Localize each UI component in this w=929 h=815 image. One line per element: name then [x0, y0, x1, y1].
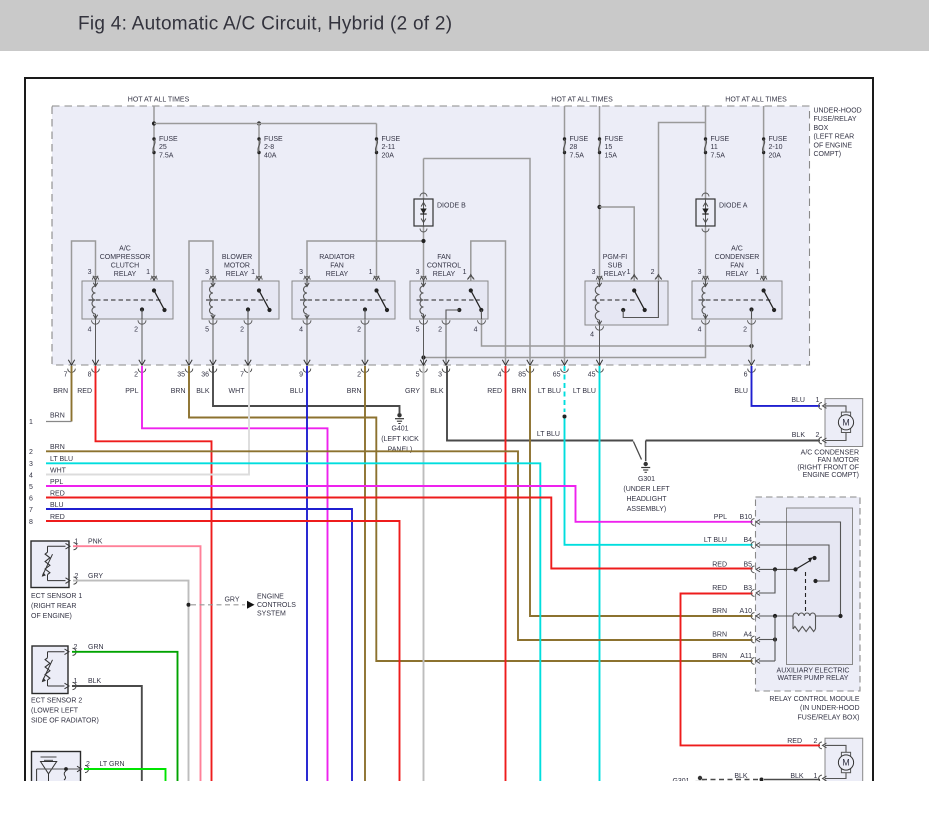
svg-text:7.5A: 7.5A: [159, 152, 174, 159]
svg-text:Fig 4: Automatic A/C Circuit,: Fig 4: Automatic A/C Circuit, Hybrid (2 …: [78, 14, 452, 35]
svg-text:M: M: [842, 758, 850, 768]
svg-text:5: 5: [416, 327, 420, 334]
svg-text:HEADLIGHT: HEADLIGHT: [626, 496, 667, 503]
svg-text:PPL: PPL: [714, 514, 727, 521]
svg-text:RED: RED: [787, 738, 802, 745]
svg-text:B3: B3: [743, 585, 752, 592]
svg-text:COMPRESSOR: COMPRESSOR: [100, 254, 151, 261]
svg-text:7: 7: [64, 372, 68, 379]
svg-text:7.5A: 7.5A: [711, 152, 726, 159]
svg-text:2: 2: [74, 644, 78, 651]
svg-text:7: 7: [240, 372, 244, 379]
svg-text:PNK: PNK: [88, 538, 103, 545]
svg-text:RELAY: RELAY: [726, 271, 749, 278]
svg-text:A/C: A/C: [731, 246, 743, 253]
svg-text:2: 2: [814, 738, 818, 745]
svg-text:PANEL): PANEL): [388, 447, 413, 454]
svg-text:ECT SENSOR 2: ECT SENSOR 2: [31, 698, 82, 705]
svg-text:SUB: SUB: [608, 263, 623, 270]
svg-text:COMPT): COMPT): [814, 151, 842, 158]
svg-text:1: 1: [75, 538, 79, 545]
svg-text:RELAY: RELAY: [433, 271, 456, 278]
svg-text:FUSE: FUSE: [570, 136, 589, 143]
svg-text:RED: RED: [50, 490, 65, 497]
svg-text:5: 5: [29, 484, 33, 491]
svg-text:FUSE: FUSE: [159, 136, 178, 143]
svg-text:BRN: BRN: [512, 388, 527, 395]
svg-text:4: 4: [698, 327, 702, 334]
svg-text:BOX: BOX: [814, 125, 829, 132]
svg-text:ECT SENSOR 1: ECT SENSOR 1: [31, 593, 82, 600]
svg-text:6: 6: [29, 495, 33, 502]
svg-text:B5: B5: [743, 561, 752, 568]
svg-text:LT BLU: LT BLU: [538, 388, 561, 395]
svg-text:FUSE: FUSE: [605, 136, 624, 143]
svg-text:G301: G301: [638, 476, 655, 483]
svg-text:3: 3: [438, 372, 442, 379]
svg-text:2-11: 2-11: [382, 144, 396, 151]
svg-text:G401: G401: [391, 426, 408, 433]
svg-text:3: 3: [698, 269, 702, 276]
svg-text:FUSE: FUSE: [711, 136, 730, 143]
svg-text:WHT: WHT: [229, 388, 246, 395]
svg-text:BLU: BLU: [734, 388, 748, 395]
svg-text:LT BLU: LT BLU: [50, 456, 73, 463]
svg-text:RELAY: RELAY: [226, 271, 249, 278]
svg-text:4: 4: [474, 327, 478, 334]
svg-text:LT BLU: LT BLU: [573, 388, 596, 395]
svg-text:FUSE: FUSE: [382, 136, 401, 143]
svg-text:A4: A4: [743, 632, 752, 639]
svg-text:CONDENSER: CONDENSER: [715, 254, 760, 261]
svg-text:2-8: 2-8: [264, 144, 274, 151]
svg-text:(LEFT REAR: (LEFT REAR: [814, 134, 855, 141]
svg-text:BLK: BLK: [88, 678, 102, 685]
svg-text:HOT AT ALL TIMES: HOT AT ALL TIMES: [725, 97, 787, 104]
svg-text:FUSE: FUSE: [264, 136, 283, 143]
svg-text:HOT AT ALL TIMES: HOT AT ALL TIMES: [128, 97, 190, 104]
svg-text:5: 5: [205, 327, 209, 334]
svg-text:GRY: GRY: [405, 388, 420, 395]
svg-text:45: 45: [588, 372, 596, 379]
svg-text:PPL: PPL: [125, 388, 138, 395]
svg-text:7: 7: [29, 507, 33, 514]
svg-text:3: 3: [416, 269, 420, 276]
svg-text:FAN: FAN: [730, 263, 744, 270]
svg-text:ENGINE COMPT): ENGINE COMPT): [803, 472, 859, 479]
svg-text:RELAY: RELAY: [604, 271, 627, 278]
svg-text:40A: 40A: [264, 152, 277, 159]
svg-text:(RIGHT FRONT OF: (RIGHT FRONT OF: [797, 465, 859, 472]
svg-text:WATER PUMP RELAY: WATER PUMP RELAY: [778, 675, 849, 682]
svg-text:28: 28: [570, 144, 578, 151]
svg-text:WHT: WHT: [50, 467, 67, 474]
svg-text:4: 4: [299, 327, 303, 334]
svg-text:B10: B10: [740, 514, 753, 521]
svg-text:2-10: 2-10: [769, 144, 783, 151]
svg-text:ASSEMBLY): ASSEMBLY): [627, 506, 667, 513]
svg-text:RELAY: RELAY: [114, 271, 137, 278]
svg-text:2: 2: [134, 327, 138, 334]
svg-text:HOT AT ALL TIMES: HOT AT ALL TIMES: [551, 97, 613, 104]
svg-text:RED: RED: [712, 585, 727, 592]
svg-text:8: 8: [88, 372, 92, 379]
svg-text:(RIGHT REAR: (RIGHT REAR: [31, 603, 76, 610]
svg-text:1: 1: [251, 269, 255, 276]
svg-text:A/C CONDENSER: A/C CONDENSER: [801, 450, 859, 457]
svg-text:A10: A10: [740, 608, 753, 615]
svg-text:RED: RED: [77, 388, 92, 395]
svg-text:8: 8: [29, 519, 33, 526]
svg-text:3: 3: [299, 269, 303, 276]
svg-text:BLK: BLK: [196, 388, 210, 395]
svg-text:25: 25: [159, 144, 167, 151]
svg-text:M: M: [842, 418, 850, 428]
svg-text:3: 3: [205, 269, 209, 276]
svg-text:9: 9: [299, 372, 303, 379]
svg-text:PGM-FI: PGM-FI: [603, 254, 628, 261]
svg-text:GRY: GRY: [88, 573, 103, 580]
svg-text:20A: 20A: [769, 152, 782, 159]
svg-text:3: 3: [88, 269, 92, 276]
svg-text:DIODE B: DIODE B: [437, 203, 466, 210]
svg-text:FUSE: FUSE: [769, 136, 788, 143]
svg-text:BLU: BLU: [290, 388, 304, 395]
svg-text:BLU: BLU: [791, 397, 805, 404]
svg-text:OF ENGINE: OF ENGINE: [814, 142, 853, 149]
svg-text:36: 36: [201, 372, 209, 379]
svg-text:GRY: GRY: [224, 597, 239, 604]
svg-text:CONTROLS: CONTROLS: [257, 602, 296, 609]
svg-text:CONTROL: CONTROL: [427, 263, 461, 270]
svg-text:15: 15: [605, 144, 613, 151]
svg-text:FAN: FAN: [437, 254, 451, 261]
svg-text:BLK: BLK: [792, 432, 806, 439]
svg-text:(LOWER LEFT: (LOWER LEFT: [31, 708, 79, 715]
svg-text:4: 4: [590, 332, 594, 339]
svg-text:RELAY: RELAY: [326, 271, 349, 278]
svg-text:(IN UNDER-HOOD: (IN UNDER-HOOD: [800, 705, 860, 712]
svg-text:5: 5: [416, 372, 420, 379]
svg-text:BRN: BRN: [50, 444, 65, 451]
svg-text:RED: RED: [712, 561, 727, 568]
svg-text:FUSE/RELAY BOX): FUSE/RELAY BOX): [798, 715, 860, 722]
svg-text:BRN: BRN: [712, 653, 727, 660]
svg-text:A11: A11: [740, 653, 752, 660]
svg-text:A/C: A/C: [119, 246, 131, 253]
svg-text:BRN: BRN: [712, 632, 727, 639]
svg-text:7.5A: 7.5A: [570, 152, 585, 159]
svg-text:65: 65: [553, 372, 561, 379]
svg-text:BLK: BLK: [430, 388, 444, 395]
svg-text:PPL: PPL: [50, 479, 63, 486]
svg-text:2: 2: [651, 269, 655, 276]
svg-text:RED: RED: [487, 388, 502, 395]
svg-text:FAN MOTOR: FAN MOTOR: [818, 457, 859, 464]
svg-text:ENGINE: ENGINE: [257, 594, 284, 601]
svg-text:UNDER-HOOD: UNDER-HOOD: [814, 108, 862, 115]
svg-text:4: 4: [498, 372, 502, 379]
svg-text:2: 2: [743, 327, 747, 334]
svg-text:BRN: BRN: [171, 388, 186, 395]
svg-text:BRN: BRN: [712, 608, 727, 615]
svg-text:BRN: BRN: [53, 388, 68, 395]
svg-text:2: 2: [75, 573, 79, 580]
svg-text:2: 2: [357, 327, 361, 334]
svg-text:15A: 15A: [605, 152, 618, 159]
svg-text:RELAY CONTROL MODULE: RELAY CONTROL MODULE: [769, 696, 859, 703]
svg-text:11: 11: [711, 144, 718, 151]
svg-text:RADIATOR: RADIATOR: [319, 254, 355, 261]
svg-text:2: 2: [357, 372, 361, 379]
svg-text:G301: G301: [672, 778, 689, 785]
svg-text:2: 2: [438, 327, 442, 334]
svg-text:1: 1: [146, 269, 150, 276]
svg-text:BLOWER: BLOWER: [222, 254, 252, 261]
svg-text:2: 2: [86, 761, 90, 768]
svg-text:1: 1: [463, 269, 467, 276]
svg-text:85: 85: [518, 372, 526, 379]
svg-text:OF ENGINE): OF ENGINE): [31, 613, 72, 620]
svg-text:BRN: BRN: [50, 413, 65, 420]
svg-text:1: 1: [29, 419, 33, 426]
svg-text:4: 4: [88, 327, 92, 334]
svg-text:BRN: BRN: [347, 388, 362, 395]
svg-text:SIDE OF RADIATOR): SIDE OF RADIATOR): [31, 718, 99, 725]
svg-text:BLU: BLU: [50, 502, 64, 509]
svg-text:(LEFT KICK: (LEFT KICK: [381, 436, 419, 443]
svg-text:(UNDER LEFT: (UNDER LEFT: [623, 486, 670, 493]
svg-text:4: 4: [29, 472, 33, 479]
svg-text:1: 1: [756, 269, 760, 276]
svg-text:2: 2: [134, 372, 138, 379]
svg-text:LT BLU: LT BLU: [704, 537, 727, 544]
svg-text:1: 1: [74, 678, 78, 685]
svg-text:1: 1: [627, 269, 631, 276]
svg-text:CLUTCH: CLUTCH: [111, 263, 139, 270]
svg-text:20A: 20A: [382, 152, 395, 159]
svg-text:AUXILIARY ELECTRIC: AUXILIARY ELECTRIC: [777, 668, 850, 675]
svg-text:3: 3: [29, 461, 33, 468]
svg-text:6: 6: [744, 372, 748, 379]
svg-text:FUSE/RELAY: FUSE/RELAY: [814, 116, 857, 123]
svg-text:FAN: FAN: [330, 263, 344, 270]
svg-text:B4: B4: [743, 537, 752, 544]
svg-text:SYSTEM: SYSTEM: [257, 611, 286, 618]
svg-text:LT BLU: LT BLU: [537, 431, 560, 438]
svg-text:35: 35: [177, 372, 185, 379]
svg-text:2: 2: [29, 449, 33, 456]
svg-text:LT GRN: LT GRN: [100, 761, 125, 768]
svg-text:RED: RED: [50, 514, 65, 521]
svg-text:2: 2: [240, 327, 244, 334]
svg-text:GRN: GRN: [88, 644, 104, 651]
svg-text:MOTOR: MOTOR: [224, 263, 250, 270]
svg-text:3: 3: [592, 269, 596, 276]
svg-text:1: 1: [369, 269, 373, 276]
svg-text:DIODE A: DIODE A: [719, 203, 748, 210]
svg-text:1: 1: [816, 397, 820, 404]
